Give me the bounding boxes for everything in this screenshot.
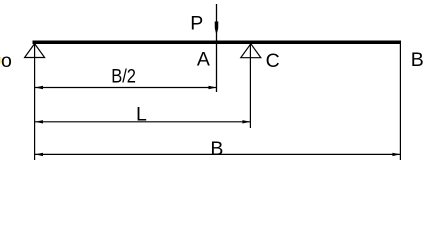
svg-text:C: C <box>266 50 280 72</box>
svg-text:B/2: B/2 <box>111 66 136 88</box>
svg-text:o: o <box>1 50 12 72</box>
svg-text:A: A <box>197 48 210 70</box>
svg-text:B: B <box>411 49 424 71</box>
svg-text:B: B <box>210 138 223 160</box>
svg-text:P: P <box>190 13 203 35</box>
svg-text:L: L <box>136 104 147 126</box>
